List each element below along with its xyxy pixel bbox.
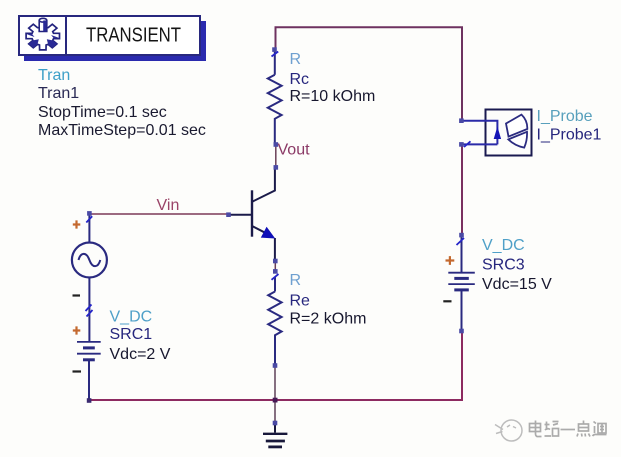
svg-text:Re: Re (290, 293, 311, 310)
svg-text:SRC1: SRC1 (110, 326, 153, 343)
svg-text:TRANSIENT: TRANSIENT (86, 25, 181, 47)
svg-text:Vout: Vout (278, 142, 311, 159)
svg-text:Vin: Vin (157, 197, 180, 214)
svg-text:I_Probe1: I_Probe1 (537, 126, 602, 143)
svg-text:Rc: Rc (290, 71, 310, 88)
svg-text:R=2 kOhm: R=2 kOhm (290, 310, 367, 327)
svg-text:SRC3: SRC3 (482, 257, 525, 274)
svg-text:V_DC: V_DC (482, 237, 525, 254)
svg-text:R: R (290, 272, 302, 289)
svg-text:R: R (290, 51, 302, 68)
svg-text:I_Probe: I_Probe (537, 108, 593, 125)
svg-text:Tran1: Tran1 (38, 85, 79, 102)
svg-text:R=10 kOhm: R=10 kOhm (290, 88, 376, 105)
svg-text:Vdc=15 V: Vdc=15 V (482, 276, 552, 293)
svg-text:Vdc=2 V: Vdc=2 V (110, 346, 171, 363)
svg-text:StopTime=0.1 sec: StopTime=0.1 sec (38, 104, 167, 121)
svg-text:V_DC: V_DC (110, 309, 153, 326)
svg-text:Tran: Tran (38, 67, 70, 84)
svg-text:MaxTimeStep=0.01 sec: MaxTimeStep=0.01 sec (38, 122, 206, 139)
